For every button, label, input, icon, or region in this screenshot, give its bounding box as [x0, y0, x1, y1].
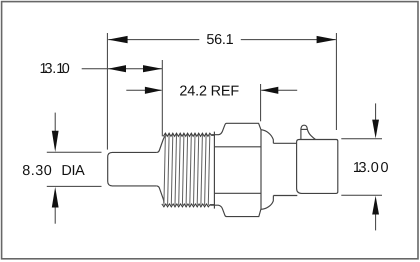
extension line 8.30 bottom — [47, 185, 102, 187]
hex nut left face — [213, 132, 215, 209]
leader 24.2 left — [126, 89, 161, 91]
arrow stem 8.30 lower — [54, 205, 56, 224]
extension line 8.30 top — [47, 151, 102, 153]
connector body — [297, 140, 338, 194]
thread crest zigzag bottom — [162, 204, 215, 207]
svg-text:24.2 REF: 24.2 REF — [179, 83, 239, 99]
arrowhead 8.30 up — [52, 187, 59, 208]
dim line 13.10 — [108, 68, 162, 70]
leader 24.2 right — [261, 89, 297, 91]
leader 13.10 — [82, 68, 107, 70]
flare top — [157, 136, 166, 153]
arrowhead 8.30 down — [52, 131, 59, 152]
arrow stem 8.30 upper — [54, 113, 56, 134]
hex facet line upper — [214, 146, 261, 148]
svg-text:DIA: DIA — [61, 163, 85, 179]
svg-text:8.30: 8.30 — [22, 163, 52, 179]
dimension line 56.1 — [108, 39, 199, 41]
arrow stem 13.00 upper — [375, 103, 377, 120]
arrowhead 13.00 up — [372, 196, 379, 215]
hex facet line lower — [214, 192, 261, 194]
svg-text:13.00: 13.00 — [353, 160, 389, 176]
arrowhead 56.1 left — [108, 36, 128, 43]
shoulder bottom — [261, 196, 273, 210]
barrel bottom edge — [273, 195, 297, 197]
arrowhead 13.10 left — [108, 65, 126, 72]
shoulder top — [261, 130, 273, 144]
arrowhead 13.10 right — [143, 65, 162, 72]
thread crest zigzag top — [163, 133, 214, 136]
connector tab chord — [301, 128, 307, 130]
arrowhead 13.00 down — [372, 120, 379, 139]
extension line (13.10 / 24.2 right of tip) — [161, 60, 163, 136]
arrowhead 24.2 left — [145, 87, 162, 94]
svg-text:56.1: 56.1 — [206, 32, 233, 48]
arrowhead 24.2 right — [261, 87, 278, 94]
hex nut outline — [210, 123, 261, 216]
extension line 13.00 top — [341, 138, 382, 140]
arrowhead 56.1 right — [317, 36, 337, 43]
connector tab — [301, 125, 316, 139]
probe tip — [108, 152, 157, 186]
extension line left (56.1 / 13.10) — [106, 33, 108, 150]
extension line 13.00 bottom — [341, 194, 382, 196]
arrow stem 13.00 lower — [375, 214, 377, 230]
threads — [164, 135, 210, 206]
extension line right (56.1) — [335, 33, 337, 130]
extension line (24.2 at hex) — [260, 84, 262, 121]
flare bottom — [157, 186, 164, 203]
barrel top edge — [273, 142, 296, 144]
svg-text:13.10: 13.10 — [40, 61, 70, 77]
